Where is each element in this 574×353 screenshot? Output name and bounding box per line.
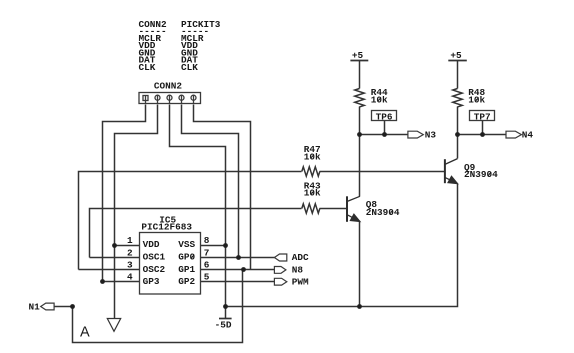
svg-text:ADC: ADC	[292, 252, 309, 263]
svg-text:OSC1: OSC1	[143, 252, 166, 263]
svg-text:8: 8	[204, 235, 210, 246]
svg-text:GP2: GP2	[178, 276, 195, 287]
svg-text:GP1: GP1	[178, 264, 195, 275]
svg-text:GP0: GP0	[178, 252, 195, 263]
svg-text:TP7: TP7	[474, 111, 491, 122]
svg-text:N4: N4	[522, 130, 534, 141]
svg-text:VSS: VSS	[178, 239, 195, 250]
svg-text:2: 2	[127, 247, 133, 258]
svg-text:4: 4	[127, 272, 133, 283]
svg-text:PIC12F683: PIC12F683	[141, 221, 192, 232]
svg-text:VDD: VDD	[143, 239, 160, 250]
svg-text:OSC2: OSC2	[143, 264, 166, 275]
svg-text:10k: 10k	[371, 94, 388, 105]
svg-text:5: 5	[204, 272, 210, 283]
svg-text:N1: N1	[29, 302, 41, 313]
svg-text:10k: 10k	[304, 151, 321, 162]
svg-text:-5D: -5D	[215, 319, 232, 330]
svg-text:N3: N3	[425, 130, 437, 141]
svg-text:PWM: PWM	[292, 277, 309, 288]
svg-text:CLK: CLK	[181, 62, 198, 73]
svg-text:+5: +5	[352, 50, 364, 61]
svg-text:10k: 10k	[304, 188, 321, 199]
svg-text:6: 6	[204, 260, 210, 271]
svg-text:7: 7	[204, 247, 210, 258]
svg-text:CLK: CLK	[139, 62, 156, 73]
svg-text:TP6: TP6	[376, 111, 393, 122]
svg-text:N8: N8	[292, 265, 304, 276]
svg-text:2N3904: 2N3904	[464, 169, 498, 180]
svg-text:CONN2: CONN2	[154, 80, 183, 91]
svg-text:GP3: GP3	[143, 276, 160, 287]
svg-text:10k: 10k	[468, 94, 485, 105]
svg-text:3: 3	[127, 260, 133, 271]
svg-text:2N3904: 2N3904	[366, 207, 400, 218]
svg-text:+5: +5	[450, 50, 462, 61]
svg-text:A: A	[80, 324, 90, 340]
svg-text:1: 1	[127, 235, 133, 246]
